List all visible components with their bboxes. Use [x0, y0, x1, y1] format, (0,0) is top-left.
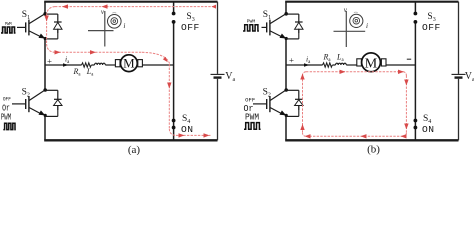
- switch S4 lower terminal dot (a): [172, 126, 176, 130]
- transistor Q-S2b emitter lead: [270, 108, 283, 115]
- motor left brush box (b): [357, 59, 362, 66]
- node S1 emitter dot: [44, 37, 47, 40]
- wire right leg above S3 gap (b): [414, 2, 416, 14]
- red bottom arrow right2 (a): [204, 133, 210, 137]
- quadrant diagram v axis (b): [345, 11, 347, 47]
- red middle arrow right1 (a): [55, 50, 61, 54]
- red current path top segment (a): [55, 6, 215, 8]
- svg-text:OFF: OFF: [181, 22, 200, 33]
- transistor Q-S2b IGBT gate lead: [253, 103, 266, 105]
- red arrow down at arc end (a): [163, 57, 168, 62]
- motor body circle M (b): [362, 53, 381, 72]
- gate PWM squarewave (a,S2): [3, 123, 16, 129]
- wire top rail (b): [285, 1, 458, 3]
- diode D2 cathode bar: [54, 98, 62, 100]
- transistor Q-S1b emitter arrowhead: [280, 34, 287, 39]
- node S1 collector dot: [43, 12, 47, 16]
- battery Va bottom wire (b): [458, 79, 460, 141]
- red middle arrow right2 (a): [90, 50, 96, 54]
- red current path corner to middle (a): [47, 44, 55, 52]
- gate PWM squarewave (a,S1): [1, 27, 16, 33]
- transistor Q-S2b collector lead: [270, 90, 286, 100]
- wire La to motor (b): [346, 64, 357, 66]
- red loop bottom segment (b): [306, 135, 403, 137]
- ia current arrowhead on wire (b): [304, 63, 309, 66]
- gate PWM squarewave (b,S1): [243, 25, 259, 31]
- svg-text:PWM: PWM: [245, 112, 259, 122]
- node S2 collector dot: [43, 88, 47, 92]
- red current path arrow left1 (a): [62, 4, 68, 8]
- red current path arc motor to right leg (a): [142, 52, 170, 63]
- transistor Q-S2 body bar: [28, 96, 30, 112]
- red loop corner bottom-right (b): [403, 133, 406, 137]
- diode D1 box right wire: [57, 14, 59, 22]
- red loop corner top-right (b): [403, 72, 406, 76]
- diode D1 cathode bar: [54, 21, 62, 23]
- node minus polarity mark (b): [407, 58, 411, 60]
- diode D1 triangle: [54, 22, 62, 29]
- transistor Q-S2b body bar: [269, 96, 271, 112]
- battery Va bottom wire (a): [217, 79, 219, 141]
- svg-text:(b): (b): [367, 144, 380, 155]
- wire between Ra and La (b): [332, 64, 335, 66]
- transistor Q-S1 body bar: [28, 20, 30, 36]
- svg-text:PWM: PWM: [1, 113, 11, 123]
- diode D2b box right wire: [298, 90, 300, 99]
- wire La to motor (a): [105, 64, 115, 66]
- transistor Q-S2 emitter arrowhead: [39, 110, 46, 115]
- battery Va short plate (a): [214, 76, 222, 78]
- battery Va top wire (a): [217, 2, 219, 74]
- switch S3 upper terminal dot (a): [172, 12, 176, 16]
- wire left rail upper (b): [285, 2, 287, 14]
- quadrant machine hub circle (b): [355, 19, 358, 22]
- red freewheel loop top segment (b): [306, 71, 403, 73]
- red loop left up arrow1 (b): [300, 74, 304, 80]
- wire motor to right leg (a): [142, 64, 173, 66]
- diode D2 bottom lead: [57, 106, 59, 110]
- inductor La coil (b): [336, 63, 347, 65]
- svg-text:ON: ON: [422, 124, 435, 135]
- transistor Q-S2 collector lead: [29, 90, 45, 100]
- red current path S1 down arrow (a): [44, 16, 48, 22]
- motor left brush box (a): [115, 60, 120, 67]
- wire bottom rail (b): [285, 139, 458, 141]
- battery Va long plate (a): [211, 73, 225, 75]
- red loop bottom left-arrow3 (b): [305, 134, 311, 138]
- node S1b emitter dot: [285, 37, 288, 40]
- transistor Q-S1b body bar: [269, 20, 271, 36]
- quadrant machine outer circle (a): [108, 14, 122, 28]
- diode D2 box top wire: [45, 89, 58, 91]
- quadrant machine rotation mark (a): [112, 12, 116, 15]
- wire left rail lower (b): [285, 115, 287, 140]
- red loop left vertical (b): [302, 76, 304, 133]
- wire middle branch left (a): [45, 64, 82, 66]
- transistor Q-S1b emitter lead: [270, 31, 283, 38]
- svg-text:OFF: OFF: [422, 22, 441, 33]
- quadrant machine rotation mark (b): [354, 11, 358, 14]
- diode D1b box top wire: [286, 13, 299, 15]
- red current path end arrow near battery (a): [212, 5, 217, 9]
- red current path right vertical (a): [168, 64, 170, 128]
- battery Va long plate (b): [452, 73, 466, 75]
- svg-text:M: M: [123, 56, 135, 71]
- transistor Q-S1 IGBT gate lead: [17, 26, 25, 28]
- diode D1 top lead: [57, 29, 59, 39]
- transistor Q-S1b IGBT gate lead: [262, 26, 267, 28]
- svg-text:M: M: [365, 56, 378, 71]
- svg-text:+: +: [289, 55, 294, 65]
- diode D2b bottom lead: [298, 106, 300, 110]
- red right vertical down arrow (a): [167, 83, 171, 89]
- inductor La coil (a): [95, 63, 106, 65]
- diode D2b cathode bar: [295, 98, 303, 100]
- switch S3 upper terminal dot (b): [414, 12, 418, 16]
- switch S4 lower terminal dot (b): [414, 126, 418, 130]
- quadrant machine inner circle (a): [111, 18, 118, 25]
- red current path corner bottom-right-leg (a): [169, 129, 176, 136]
- svg-text:i: i: [123, 22, 125, 30]
- wire right leg above S3 gap (a): [173, 2, 175, 14]
- gate PWM squarewave (b,S2): [244, 123, 261, 130]
- transistor Q-S2 gate bar: [25, 99, 27, 109]
- diode D1 box top wire: [45, 13, 58, 15]
- diode D2 box right wire: [57, 90, 59, 99]
- red current path S1 vertical (a): [46, 15, 48, 44]
- wire top rail (a): [44, 1, 217, 3]
- diode D1b box right wire: [298, 14, 300, 22]
- transistor Q-S1b collector lead: [270, 14, 286, 24]
- red loop right down arrow2 (b): [404, 124, 408, 130]
- diode D1 box bottom wire: [45, 38, 58, 40]
- svg-text:i: i: [366, 22, 368, 30]
- red bottom arrow right1 (a): [179, 133, 185, 137]
- quadrant machine outer circle (b): [350, 14, 363, 27]
- motor body circle M (a): [120, 55, 137, 72]
- switch S3 lower terminal dot (b): [414, 20, 418, 24]
- node S2b emitter dot: [285, 114, 288, 117]
- battery Va top wire (b): [458, 2, 460, 74]
- wire left rail middle (b): [285, 38, 287, 90]
- red loop top arrow1 (b): [340, 70, 346, 74]
- wire left rail middle (a): [44, 38, 46, 90]
- transistor Q-S1 emitter lead: [29, 31, 42, 38]
- transistor Q-S2b emitter arrowhead: [280, 110, 287, 115]
- red loop corner top-left (b): [303, 72, 307, 76]
- svg-text:PWM: PWM: [5, 22, 12, 27]
- wire middle branch left (b): [286, 64, 323, 66]
- red current path bottom segment (a): [176, 134, 211, 136]
- diode D2 box bottom wire: [45, 115, 58, 117]
- node S2b collector dot: [284, 88, 288, 92]
- quadrant diagram v axis (a): [104, 11, 106, 47]
- red current path corner top-left (a): [47, 7, 55, 15]
- red loop bottom left-arrow2 (b): [361, 134, 367, 138]
- wire between Ra and La (a): [91, 64, 94, 66]
- transistor Q-S1 emitter arrowhead: [39, 34, 46, 39]
- switch S4 upper terminal dot (a): [172, 119, 176, 123]
- wire right leg below S3 gap through S4 (a): [173, 22, 175, 140]
- transistor Q-S1 collector lead: [29, 14, 45, 24]
- switch S3 lower terminal dot (a): [172, 20, 176, 24]
- quadrant machine inner circle (b): [353, 17, 360, 24]
- diode D1b box bottom wire: [286, 38, 299, 40]
- wire right leg below S3 gap through S4 (b): [414, 22, 416, 140]
- diode D1 bottom lead: [57, 29, 59, 33]
- wire left rail lower (a): [44, 115, 46, 140]
- node S2 emitter dot: [44, 114, 47, 117]
- transistor Q-S2b gate bar: [266, 99, 268, 109]
- diode D1b bottom lead: [298, 29, 300, 33]
- node S1b collector dot: [284, 12, 288, 16]
- red loop left up arrow2 (b): [300, 124, 304, 130]
- transistor Q-S2 IGBT gate lead: [12, 103, 25, 105]
- svg-text:PWM: PWM: [247, 19, 256, 25]
- wire left rail upper (a): [44, 2, 46, 14]
- transistor Q-S2 emitter lead: [29, 108, 42, 115]
- svg-text:(a): (a): [128, 144, 141, 155]
- diode D2 triangle: [54, 100, 62, 106]
- quadrant diagram i axis (a): [88, 30, 114, 32]
- quadrant machine hub circle (a): [113, 20, 116, 23]
- ia current arrowhead on wire (a): [63, 63, 68, 66]
- svg-text:ON: ON: [181, 124, 194, 135]
- diode D1b cathode bar: [295, 21, 303, 23]
- diode D2b box top wire: [286, 89, 299, 91]
- wire bottom rail (a): [44, 139, 217, 141]
- motor right brush box (b): [381, 59, 386, 66]
- resistor Ra zigzag (a): [82, 63, 92, 67]
- red loop right vertical (b): [405, 76, 407, 133]
- switch S4 upper terminal dot (b): [414, 119, 418, 123]
- quadrant diagram i axis (b): [334, 30, 366, 32]
- red loop bottom left-arrow1 (b): [401, 134, 407, 138]
- transistor Q-S1b gate bar: [266, 22, 268, 32]
- wire motor to right leg (b): [386, 64, 415, 66]
- motor right brush box (a): [138, 60, 143, 67]
- diode D2 top lead: [57, 106, 59, 117]
- red current path middle segment (a): [55, 51, 142, 53]
- diode D1b top lead: [298, 29, 300, 39]
- diode D1b triangle: [295, 22, 303, 29]
- battery Va short plate (b): [455, 76, 463, 78]
- red loop corner bottom-left (b): [303, 133, 307, 137]
- diode D2b top lead: [298, 106, 300, 117]
- red current path arrow left2 (a): [102, 4, 108, 8]
- diode D2b box bottom wire: [286, 115, 299, 117]
- transistor Q-S1 gate bar: [25, 22, 27, 32]
- diode D2b triangle: [295, 100, 303, 106]
- resistor Ra zigzag (b): [323, 63, 333, 67]
- red loop right down arrow1 (b): [404, 80, 408, 86]
- red loop top arrow2 (b): [398, 70, 404, 74]
